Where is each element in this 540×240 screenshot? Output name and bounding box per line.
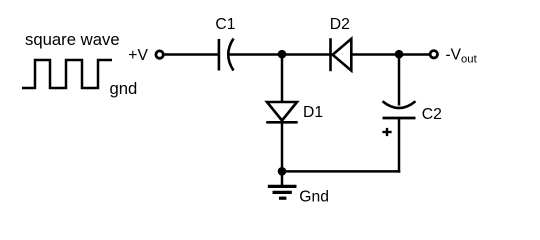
ground symbol xyxy=(268,186,297,198)
square wave source glyph xyxy=(22,60,112,88)
svg-text:C1: C1 xyxy=(215,16,235,33)
wire: node B down to C2 xyxy=(398,55,401,106)
diode D1 xyxy=(266,102,298,122)
svg-text:Gnd: Gnd xyxy=(299,189,329,206)
wire: node to ground symbol xyxy=(281,171,284,185)
wire: bottom rail xyxy=(282,170,400,173)
svg-text:gnd: gnd xyxy=(110,79,138,98)
wire: input terminal to C1 xyxy=(163,53,218,56)
node A junction dot xyxy=(278,50,287,59)
output terminal circle xyxy=(430,51,437,58)
node B junction dot xyxy=(395,50,404,59)
svg-text:-Vout: -Vout xyxy=(446,46,478,65)
svg-text:D1: D1 xyxy=(303,104,323,121)
svg-text:+V: +V xyxy=(128,47,148,64)
wire: D2 to node B xyxy=(351,53,399,56)
plus polarity mark xyxy=(382,128,391,136)
diode D2 xyxy=(331,38,352,71)
svg-text:D2: D2 xyxy=(330,16,350,33)
wire: C2 down to bottom rail xyxy=(398,118,401,173)
ground node junction dot xyxy=(278,167,287,176)
input terminal circle xyxy=(156,51,163,58)
capacitor C2 (polarized) xyxy=(383,101,416,118)
wire: D1 to ground node xyxy=(281,118,284,173)
wire: C1 to node A xyxy=(229,53,282,56)
wire: node B to output terminal xyxy=(399,53,430,56)
svg-text:C2: C2 xyxy=(422,106,442,123)
capacitor C1 xyxy=(219,39,234,71)
wire: node A down to D1 xyxy=(281,55,284,103)
svg-text:square wave: square wave xyxy=(25,30,120,49)
wire: node A to D2 xyxy=(282,53,330,56)
